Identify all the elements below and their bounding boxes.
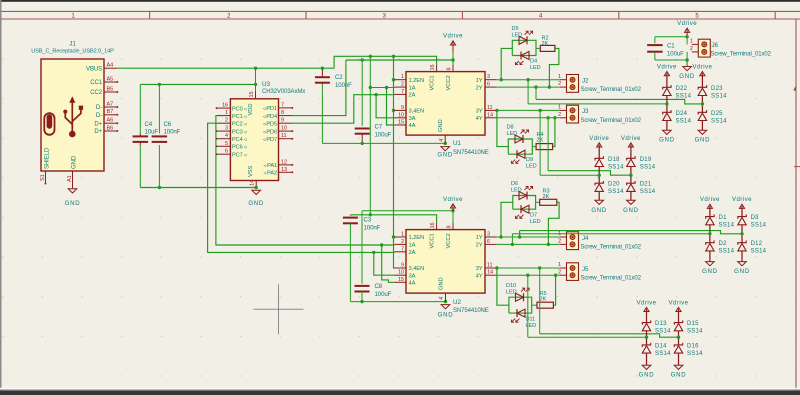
junction U2 2A rail [372,251,375,254]
wire cap top rail [140,83,255,85]
svg-text:2Y: 2Y [476,85,483,91]
svg-text:SS14: SS14 [687,351,703,357]
svg-text:Vdrive: Vdrive [443,196,463,203]
wire U2 4Y drop [527,275,529,337]
wire rail to D18 D20 [540,174,599,176]
svg-text:GND: GND [623,207,639,214]
svg-text:J3: J3 [582,108,589,115]
svg-text:7: 7 [401,89,404,95]
svg-text:D5: D5 [512,26,519,32]
svg-text:SS14: SS14 [655,329,671,335]
svg-text:J5: J5 [582,266,589,273]
svg-text:J4: J4 [582,235,589,242]
wire 3Y drop [539,110,541,175]
svg-text:D23: D23 [711,86,723,92]
U2 pin 2 1A [395,243,407,245]
svg-text:2: 2 [558,239,561,245]
svg-text:VBUS: VBUS [86,66,102,72]
svg-text:LED: LED [512,32,523,38]
junction 3Y [495,109,498,112]
wire rail to D13 D14 [528,336,647,338]
svg-text:VCC1: VCC1 [430,75,436,90]
svg-text:U3: U3 [262,81,270,88]
wire EN vertical [394,56,395,268]
junction gnd rail [361,142,364,145]
U3 pin 10 PD6 [279,130,293,132]
svg-text:2Y: 2Y [476,243,483,249]
U1 pin 9 3,4EN [395,109,407,111]
svg-text:D8: D8 [507,125,514,131]
svg-text:D22: D22 [676,86,688,92]
svg-text:GND: GND [671,372,687,379]
svg-text:GND: GND [439,277,445,290]
svg-text:8: 8 [281,110,284,116]
wire PC1 to U2 1A [216,116,395,245]
junction EN [392,78,395,81]
ground symbol under J1 [68,189,77,193]
svg-text:3: 3 [487,74,490,80]
wire J6 pin1 link [686,37,688,45]
wire U2 4Y to J5 pin2 [497,274,560,276]
svg-text:Vdrive: Vdrive [589,135,609,142]
J1 USB icon trident [69,96,75,103]
junction gnd rail U2 [360,300,363,303]
svg-text:D21: D21 [640,182,652,188]
J1 pin A5 CC1 [104,81,117,83]
junction Vdrive U2 [451,209,454,212]
resistor R3 [540,199,557,205]
led D9 [517,150,525,158]
svg-text:D+: D+ [94,129,102,135]
led D10 [516,293,524,301]
ground symbol under U2 [441,305,450,309]
svg-text:1: 1 [401,74,404,80]
junction dots on cap rails [158,83,161,86]
led loop D10 D11 frame [509,297,532,313]
U2 pin 3 1Y [485,236,497,238]
svg-text:D7: D7 [530,212,537,218]
svg-text:C6: C6 [164,121,172,128]
connector J2 [567,75,579,93]
resistor R2 [540,45,555,51]
junction rail B [361,58,364,61]
junction 1Y [500,78,503,81]
connector J1 body [41,59,104,171]
svg-text:LED: LED [530,65,541,71]
svg-text:14: 14 [487,112,493,118]
sheet frame right border line [795,19,797,392]
junction U2 1A rail [380,243,383,246]
wire rail VBUS to VCC1 [334,56,437,68]
wire loop to R4 [532,146,536,148]
svg-text:SS14: SS14 [655,351,671,357]
svg-text:SS14: SS14 [640,189,656,195]
U1 pin 11 3Y [485,109,497,111]
svg-text:GND: GND [437,152,453,159]
U1 pin 3 1Y [485,79,497,81]
svg-text:15: 15 [249,92,255,98]
svg-text:10: 10 [398,112,404,118]
svg-text:D3: D3 [751,215,760,221]
svg-text:Screw_Terminal_01x02: Screw_Terminal_01x02 [581,245,642,251]
wire rail Vdrive VCC2 [346,59,453,61]
svg-text:CC2: CC2 [90,90,102,96]
svg-text:GND: GND [72,155,78,169]
svg-text:VSS: VSS [248,165,254,177]
svg-text:S1: S1 [40,174,46,181]
wire VBUS rail top [117,67,334,69]
ground symbol under U1 [441,147,450,151]
svg-text:GND: GND [659,137,675,144]
svg-text:SS14: SS14 [719,249,735,255]
power Vdrive above J6 [686,30,688,35]
wire R4 to 4Y [553,118,555,147]
svg-text:C2: C2 [335,74,343,81]
J1 USB icon pill [44,113,54,135]
svg-text:U2: U2 [453,299,461,306]
svg-text:D6: D6 [511,181,518,187]
U2 pin 8 VCC2 [452,223,454,230]
svg-text:A4: A4 [107,63,114,69]
svg-text:VCC2: VCC2 [446,233,452,248]
svg-text:1: 1 [558,105,561,111]
svg-text:3,4EN: 3,4EN [409,109,425,115]
svg-text:Vdrive: Vdrive [657,64,677,71]
resistor R4 [536,144,553,150]
svg-text:15: 15 [398,277,404,283]
U3 pin 16 PC0 [217,107,231,109]
svg-text:4: 4 [439,139,445,142]
wire 3A feed U1 [376,95,394,118]
svg-text:11: 11 [487,263,493,269]
svg-text:LED: LED [526,164,537,170]
wire rail to D23 D25 [536,99,702,104]
svg-text:PC6 ◃: PC6 ◃ [232,145,247,151]
svg-text:SN754410NE: SN754410NE [453,150,489,156]
U1 pin 1 1,2EN [395,79,407,81]
svg-text:Vdrive: Vdrive [677,20,697,27]
svg-text:GND: GND [639,372,655,379]
canvas edge strips [0,0,800,2]
svg-text:3Y: 3Y [476,109,483,115]
capacitor C7 [361,60,363,126]
wire U2 2Y rise [511,234,513,245]
svg-text:1,2EN: 1,2EN [409,235,425,241]
led loop D6 D7 frame [513,196,536,210]
resistor R5 [537,302,553,308]
wire to led D6 loop [501,202,513,237]
wire loop to R2 [536,47,540,49]
junction 2Y [534,85,537,88]
svg-text:14: 14 [249,180,255,186]
connector J3 [567,105,579,123]
svg-text:SS14: SS14 [751,223,767,229]
svg-text:4Y: 4Y [476,116,483,122]
svg-text:SHIELD: SHIELD [45,147,51,169]
svg-text:◃ PA1: ◃ PA1 [263,163,277,169]
svg-text:GND: GND [591,207,607,214]
wire 1Y drop [527,80,529,104]
svg-text:A5: A5 [107,76,114,82]
wire gnd rail U1 [322,142,445,144]
svg-text:4: 4 [225,133,228,139]
svg-text:16: 16 [430,223,436,229]
svg-text:D2: D2 [719,241,728,247]
svg-text:13: 13 [281,167,287,173]
svg-text:2A: 2A [409,93,416,99]
U3 pin 9 PD5 [279,122,293,124]
svg-text:Vdrive: Vdrive [669,299,689,306]
wire U2 3Y drop [539,268,541,334]
svg-text:4A: 4A [409,123,416,129]
junction U2 1Y [499,235,502,238]
J1 pin A6 D+ [104,122,117,124]
svg-text:C7: C7 [375,124,383,131]
U2 pin 7 2A [395,251,407,253]
svg-text:B6: B6 [107,125,114,131]
cursor crosshair [254,308,304,310]
wire rail to D1 D2 [512,233,710,235]
svg-text:Screw_Terminal_01x02: Screw_Terminal_01x02 [711,52,772,58]
svg-text:1,2EN: 1,2EN [409,78,425,84]
J1 pin B7 D- [104,114,117,116]
led D5 [519,36,527,44]
svg-text:100nF: 100nF [164,129,181,136]
svg-text:5: 5 [225,141,228,147]
wire to led D8 loop [497,110,508,146]
wire C2 to gnd rail [321,85,323,144]
capacitor C4 [139,84,141,133]
wire R5 to 4Y [553,275,555,305]
led loop D5 D4 frame [512,40,536,55]
svg-text:D11: D11 [526,316,536,322]
U3 pin 4 PC4 [217,138,231,140]
J1 pin B6 D+ [104,130,117,132]
capacitor C8 [361,211,363,284]
capacitor C1 [654,37,656,43]
svg-text:C1: C1 [667,42,675,49]
U2 pin 11 3Y [485,267,497,269]
svg-text:PC0 ◃: PC0 ◃ [232,106,247,112]
svg-text:2: 2 [558,81,561,87]
junction U2 4Y [526,274,529,277]
svg-text:LED: LED [507,131,518,137]
svg-text:LED: LED [530,219,541,225]
svg-text:PC3 ◃: PC3 ◃ [232,129,247,135]
svg-text:GND: GND [734,268,750,275]
svg-text:SN754410NE: SN754410NE [453,308,489,314]
power Vdrive above U1 [452,42,454,47]
svg-text:6: 6 [487,239,490,245]
wire U1 4Y to J3 pin2 [497,117,560,119]
U3 pin 14 VSS [255,181,257,188]
svg-text:14: 14 [487,270,493,276]
U1 pin 16 VCC1 [436,65,438,72]
power Vdrive above U2 [452,205,454,210]
svg-text:GND: GND [702,268,718,275]
svg-text:SS14: SS14 [751,249,767,255]
svg-text:SS14: SS14 [608,164,624,170]
svg-text:D20: D20 [608,182,620,188]
U2 pin 15 4A [395,281,407,283]
junction 1A [369,86,372,89]
svg-text:A1: A1 [67,175,73,182]
svg-text:2: 2 [690,46,693,52]
led loop D8 D9 frame [508,139,532,154]
svg-text:2: 2 [558,112,561,118]
wire Vdrive rail U2 [362,210,453,212]
led D4 [521,52,529,60]
junction U2 3Y [495,266,498,269]
U3 pin 6 PC7 [217,153,231,155]
svg-text:8: 8 [447,226,453,229]
svg-text:C4: C4 [145,121,153,128]
J1 pin B5 CC2 [104,91,117,93]
svg-text:2K: 2K [540,297,547,303]
svg-text:4A: 4A [409,281,416,287]
U3 pin 13 PA2 [279,171,293,173]
junction U2 2Y [511,243,514,246]
ic U2 body [406,230,485,294]
U3 pin 11 PD7 [279,138,293,140]
svg-text:1Y: 1Y [476,78,483,84]
svg-text:8: 8 [447,68,453,71]
svg-text:3,4EN: 3,4EN [409,266,425,272]
svg-text:10: 10 [398,270,404,276]
U1 pin 10 3A [395,117,407,119]
svg-text:2A: 2A [409,250,416,256]
capacitor C2 [315,76,330,78]
svg-text:2K: 2K [542,41,549,47]
svg-text:1: 1 [558,74,561,80]
led D11 [517,309,525,317]
svg-text:Vdrive: Vdrive [732,196,752,203]
svg-text:PC7 ◃: PC7 ◃ [232,152,247,158]
svg-text:◃ PD1: ◃ PD1 [263,106,277,112]
junction VCC1 rail [369,213,372,216]
connector J4 [567,232,579,250]
junction 2A [374,93,377,96]
svg-text:11: 11 [487,105,493,111]
svg-text:C8: C8 [375,283,383,290]
svg-text:2: 2 [558,269,561,275]
wire rail to D15 D16 [540,334,679,337]
svg-text:12: 12 [281,159,287,165]
svg-text:GND: GND [695,137,711,144]
U3 pin 7 PD1 [279,107,293,109]
svg-text:10: 10 [281,126,287,132]
junction C1 top [685,35,688,38]
wire rail to D19 D21 [548,171,631,176]
svg-text:C3: C3 [364,217,372,224]
U3 pin 8 PD4 [279,115,293,117]
U2 pin 16 VCC1 [436,223,438,230]
svg-text:SS14: SS14 [608,189,624,195]
U3 pin 2 PC2 [217,122,231,124]
svg-text:CC1: CC1 [90,80,102,86]
svg-text:SS14: SS14 [719,223,735,229]
wire cap bottom rail [140,187,256,189]
U2 pin 6 2Y [485,243,497,245]
ic U3 body [230,99,278,181]
wire U1 1Y to J2 pin1 [497,79,560,81]
svg-text:D4: D4 [530,59,537,65]
svg-text:1A: 1A [409,243,416,249]
connector J5 [567,263,579,281]
svg-text:Screw_Terminal_01x02: Screw_Terminal_01x02 [581,276,642,282]
svg-text:LED: LED [506,289,517,295]
connector J6 [698,39,710,57]
U1 pin 4 GND [444,135,446,143]
svg-text:3: 3 [225,126,228,132]
svg-text:SS14: SS14 [640,164,656,170]
junction rail A [369,55,372,58]
svg-text:3Y: 3Y [476,266,483,272]
wire to led D10 loop [497,268,509,305]
wire VCC1 rail U2 [350,215,436,223]
svg-text:Screw_Terminal_01x02: Screw_Terminal_01x02 [581,118,642,124]
svg-text:D13: D13 [655,321,667,327]
svg-text:D18: D18 [608,157,620,163]
svg-text:SS14: SS14 [711,93,727,99]
junction U3 VSS [255,186,258,189]
svg-text:Vdrive: Vdrive [700,196,720,203]
J1 pin A1 GND [72,171,74,188]
svg-text:1: 1 [558,262,561,268]
wire C1 J6 loop top [655,36,687,38]
junction 4Y [546,116,549,119]
svg-text:15: 15 [398,120,404,126]
wire loop to R3 [536,201,540,203]
wire loop to R5 [532,304,537,306]
svg-text:9: 9 [401,105,404,111]
wire 2Y drop [535,87,537,99]
svg-text:VCC1: VCC1 [430,233,436,248]
svg-text:LED: LED [526,323,537,329]
svg-text:1Y: 1Y [476,235,483,241]
U2 pin 14 4Y [485,274,497,276]
svg-text:J1: J1 [69,41,76,48]
U3 pin 3 PC3 [217,130,231,132]
wire U2 1Y rise [519,231,521,237]
svg-text:LED: LED [511,188,522,194]
wire 4A feed U1 [387,88,395,126]
wire J6 pin2 link [686,52,688,60]
J1 pin A7 D- [104,106,117,108]
U2 pin 4 GND [445,293,447,302]
sheet frame top border lines [0,10,800,12]
wire U2 3A feed [374,252,395,275]
led D6 [519,192,527,200]
svg-text:1: 1 [401,232,404,238]
wire U1 2Y to J2 pin2 [497,86,560,88]
svg-text:7: 7 [281,102,284,108]
wire R3 to 2Y [548,202,559,244]
U1 pin 2 1A [395,86,407,88]
svg-text:D10: D10 [506,283,516,289]
J1 pin S1 SHIELD [45,171,47,184]
svg-text:VDD: VDD [248,104,254,116]
capacitor C6 [158,84,160,133]
wire rail to D3 D12 [520,231,742,234]
svg-text:Vdrive: Vdrive [443,32,463,39]
svg-text:3A: 3A [409,273,416,279]
svg-text:◃ PD6: ◃ PD6 [263,129,277,135]
svg-text:◃ PA2: ◃ PA2 [263,171,277,177]
svg-text:D1: D1 [719,215,728,221]
wire PD4 route [292,60,346,116]
svg-text:Vdrive: Vdrive [637,299,657,306]
